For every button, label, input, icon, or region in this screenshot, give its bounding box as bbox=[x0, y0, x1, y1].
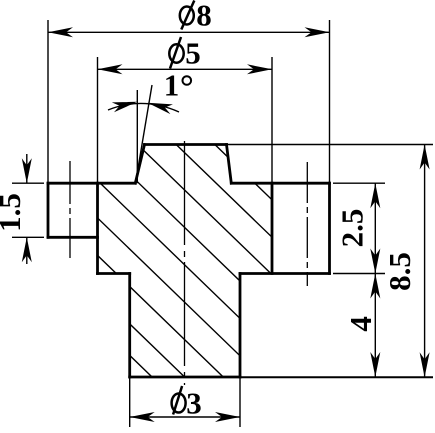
1deg right arrow bbox=[148, 103, 173, 114]
dimension text phi5 bbox=[169, 36, 200, 71]
dimension text 1 degree bbox=[164, 68, 191, 103]
phi symbol of phi3 bbox=[172, 386, 186, 415]
phi5 right extension bbox=[271, 57, 273, 183]
boss top edge bbox=[145, 143, 227, 146]
right step and ring bottom bbox=[240, 272, 330, 275]
bottom right extension bbox=[240, 376, 433, 378]
phi3 left extension bbox=[129, 377, 131, 427]
phi3 dimension line bbox=[130, 416, 240, 418]
ring right edge bbox=[328, 183, 331, 273]
phi3 right extension bbox=[239, 377, 241, 427]
stem bottom edge bbox=[130, 376, 240, 379]
1.5 top arrow bbox=[22, 158, 32, 183]
phi5 left extension bbox=[97, 57, 99, 183]
svg-text:1: 1 bbox=[164, 68, 180, 103]
4 top arrow bbox=[370, 274, 380, 299]
right ring centerline bbox=[306, 162, 308, 286]
phi3 right arrow bbox=[215, 412, 240, 422]
8.5 bottom arrow bbox=[420, 352, 430, 377]
svg-text:8.5: 8.5 bbox=[382, 252, 417, 291]
axis centerline bbox=[184, 141, 186, 385]
phi8 left extension bbox=[47, 20, 49, 183]
left step bbox=[98, 272, 130, 275]
boss left draft edge bbox=[135, 145, 144, 184]
2.5/4 middle extension bbox=[333, 273, 385, 275]
centerlines bbox=[70, 141, 307, 385]
flange bottom left bbox=[48, 236, 98, 239]
flange top edge left bbox=[48, 182, 135, 185]
8.5 top arrow bbox=[420, 145, 430, 170]
1.5 dimension line above bbox=[26, 154, 28, 183]
svg-text:1.5: 1.5 bbox=[0, 193, 27, 232]
main body left edge bbox=[96, 183, 99, 273]
svg-text:2.5: 2.5 bbox=[335, 209, 370, 248]
phi8 right arrow bbox=[305, 27, 330, 37]
svg-text:5: 5 bbox=[185, 36, 201, 71]
8.5 dimension line bbox=[424, 145, 426, 378]
phi5 left arrow bbox=[98, 64, 123, 74]
1.5 bottom arrow bbox=[22, 237, 32, 262]
phi8 dimension line bbox=[48, 31, 330, 33]
2.5 dimension line bbox=[374, 183, 376, 273]
2.5 top extension bbox=[333, 182, 385, 184]
1deg vertical reference line bbox=[136, 90, 138, 183]
phi8 left arrow bbox=[48, 27, 73, 37]
stem left edge bbox=[128, 274, 131, 378]
boss right draft edge bbox=[227, 145, 232, 184]
4 dimension line bbox=[374, 274, 376, 378]
1deg dimension arc bbox=[108, 103, 179, 112]
1.5 dimension line below bbox=[26, 237, 28, 264]
part outline bbox=[48, 145, 330, 378]
flange left edge bbox=[47, 183, 50, 237]
dimension text phi3 bbox=[172, 386, 202, 421]
svg-text:8: 8 bbox=[196, 0, 212, 33]
stem right edge bbox=[239, 274, 242, 378]
8.5 top extension bbox=[227, 144, 433, 146]
4 bottom arrow bbox=[370, 352, 380, 377]
phi3 left arrow bbox=[130, 412, 155, 422]
phi symbol of phi8 bbox=[180, 1, 195, 30]
1deg slanted reference line bbox=[136, 85, 153, 183]
2.5 bottom arrow bbox=[370, 249, 380, 274]
phi5 dimension line bbox=[98, 68, 273, 70]
dimension text phi8 bbox=[180, 0, 212, 33]
1.5 top extension bbox=[12, 182, 44, 184]
left hole centerline bbox=[69, 161, 71, 258]
1.5 bottom extension bbox=[12, 236, 44, 238]
svg-text:3: 3 bbox=[186, 386, 202, 421]
2.5 top arrow bbox=[370, 183, 380, 208]
1deg left arrow bbox=[112, 102, 138, 112]
phi5 right arrow bbox=[247, 64, 272, 74]
svg-text:4: 4 bbox=[343, 316, 378, 332]
phi symbol of phi5 bbox=[169, 37, 183, 69]
flange top edge right bbox=[231, 182, 329, 185]
phi8 right extension bbox=[329, 20, 331, 183]
main body right edge bbox=[271, 183, 274, 273]
